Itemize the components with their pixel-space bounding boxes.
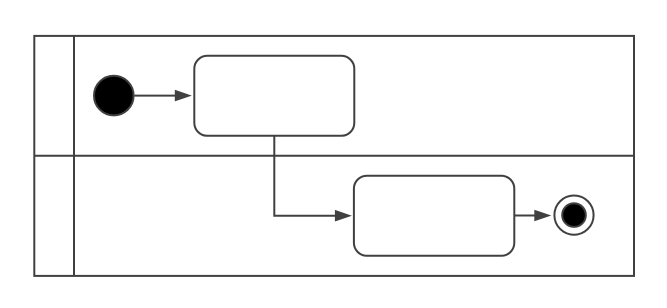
activity final node xyxy=(554,196,593,235)
activity 2 xyxy=(354,176,514,256)
wire arrow from activity 2 to final node xyxy=(514,210,551,222)
swimlane frame xyxy=(34,36,634,276)
activity 1 xyxy=(194,56,354,136)
lane divider xyxy=(34,155,634,157)
wire arrow from initial node to activity 1 xyxy=(135,90,192,102)
lane header separator xyxy=(73,36,75,276)
wire connector from activity 1 down and right to activity 2 xyxy=(274,136,352,222)
initial node xyxy=(94,76,134,116)
